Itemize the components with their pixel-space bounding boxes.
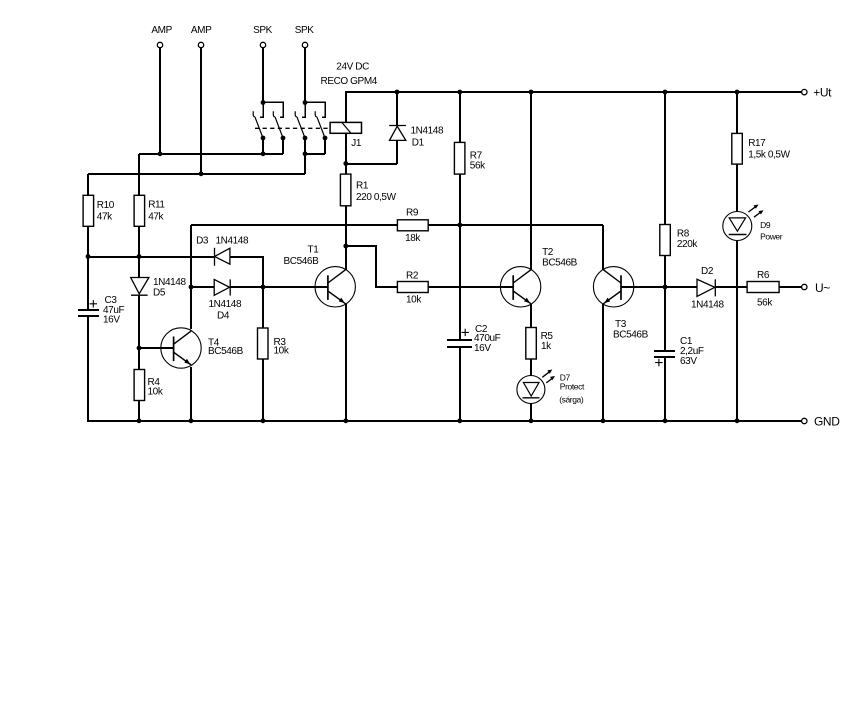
svg-text:63V: 63V: [680, 356, 697, 367]
svg-text:SPK: SPK: [295, 25, 315, 36]
svg-text:D2: D2: [701, 266, 714, 277]
svg-text:SPK: SPK: [253, 25, 273, 36]
svg-text:220 0,5W: 220 0,5W: [356, 192, 397, 203]
svg-text:D4: D4: [217, 311, 230, 322]
svg-text:1,5k 0,5W: 1,5k 0,5W: [748, 149, 790, 160]
svg-text:47k: 47k: [97, 211, 113, 222]
svg-text:1N4148: 1N4148: [209, 299, 242, 310]
svg-text:16V: 16V: [103, 315, 120, 326]
svg-text:18k: 18k: [405, 233, 421, 244]
svg-text:Power: Power: [760, 231, 783, 241]
svg-text:R17: R17: [748, 138, 766, 149]
svg-text:R11: R11: [148, 199, 165, 210]
svg-text:AMP: AMP: [191, 25, 212, 36]
svg-text:56k: 56k: [470, 160, 486, 171]
svg-text:1N4148: 1N4148: [411, 125, 444, 136]
svg-text:Protect: Protect: [560, 382, 585, 392]
svg-text:D3: D3: [196, 236, 209, 247]
svg-text:BC546B: BC546B: [284, 256, 320, 267]
svg-text:D9: D9: [760, 220, 771, 230]
svg-text:10k: 10k: [406, 294, 422, 305]
svg-text:T3: T3: [615, 319, 627, 330]
svg-text:D5: D5: [153, 287, 166, 298]
svg-text:U~: U~: [815, 281, 830, 295]
svg-text:47k: 47k: [148, 211, 164, 222]
svg-text:RECO GPM4: RECO GPM4: [321, 76, 378, 87]
svg-text:R8: R8: [677, 229, 690, 240]
svg-text:10k: 10k: [274, 346, 290, 357]
svg-text:BC546B: BC546B: [542, 258, 578, 269]
svg-text:J1: J1: [351, 138, 362, 149]
svg-text:(sárga): (sárga): [559, 394, 584, 404]
svg-text:24V DC: 24V DC: [336, 62, 369, 73]
svg-text:16V: 16V: [474, 343, 491, 354]
svg-text:R1: R1: [356, 181, 369, 192]
svg-text:BC546B: BC546B: [208, 346, 244, 357]
svg-text:T1: T1: [308, 245, 320, 256]
svg-text:D1: D1: [412, 137, 425, 148]
svg-text:220k: 220k: [677, 239, 698, 250]
svg-text:10k: 10k: [148, 387, 164, 398]
svg-text:T2: T2: [542, 247, 554, 258]
svg-text:1k: 1k: [541, 341, 552, 352]
svg-text:R6: R6: [757, 270, 770, 281]
svg-text:BC546B: BC546B: [613, 330, 649, 341]
svg-text:1N4148: 1N4148: [691, 300, 724, 311]
svg-text:1N4148: 1N4148: [153, 277, 186, 288]
svg-text:AMP: AMP: [151, 25, 172, 36]
svg-text:56k: 56k: [757, 297, 773, 308]
svg-text:R9: R9: [406, 208, 419, 219]
svg-text:R2: R2: [406, 270, 419, 281]
svg-text:1N4148: 1N4148: [216, 236, 249, 247]
svg-text:GND: GND: [814, 415, 840, 429]
svg-text:R10: R10: [97, 200, 115, 211]
svg-text:+Ut: +Ut: [813, 85, 832, 99]
